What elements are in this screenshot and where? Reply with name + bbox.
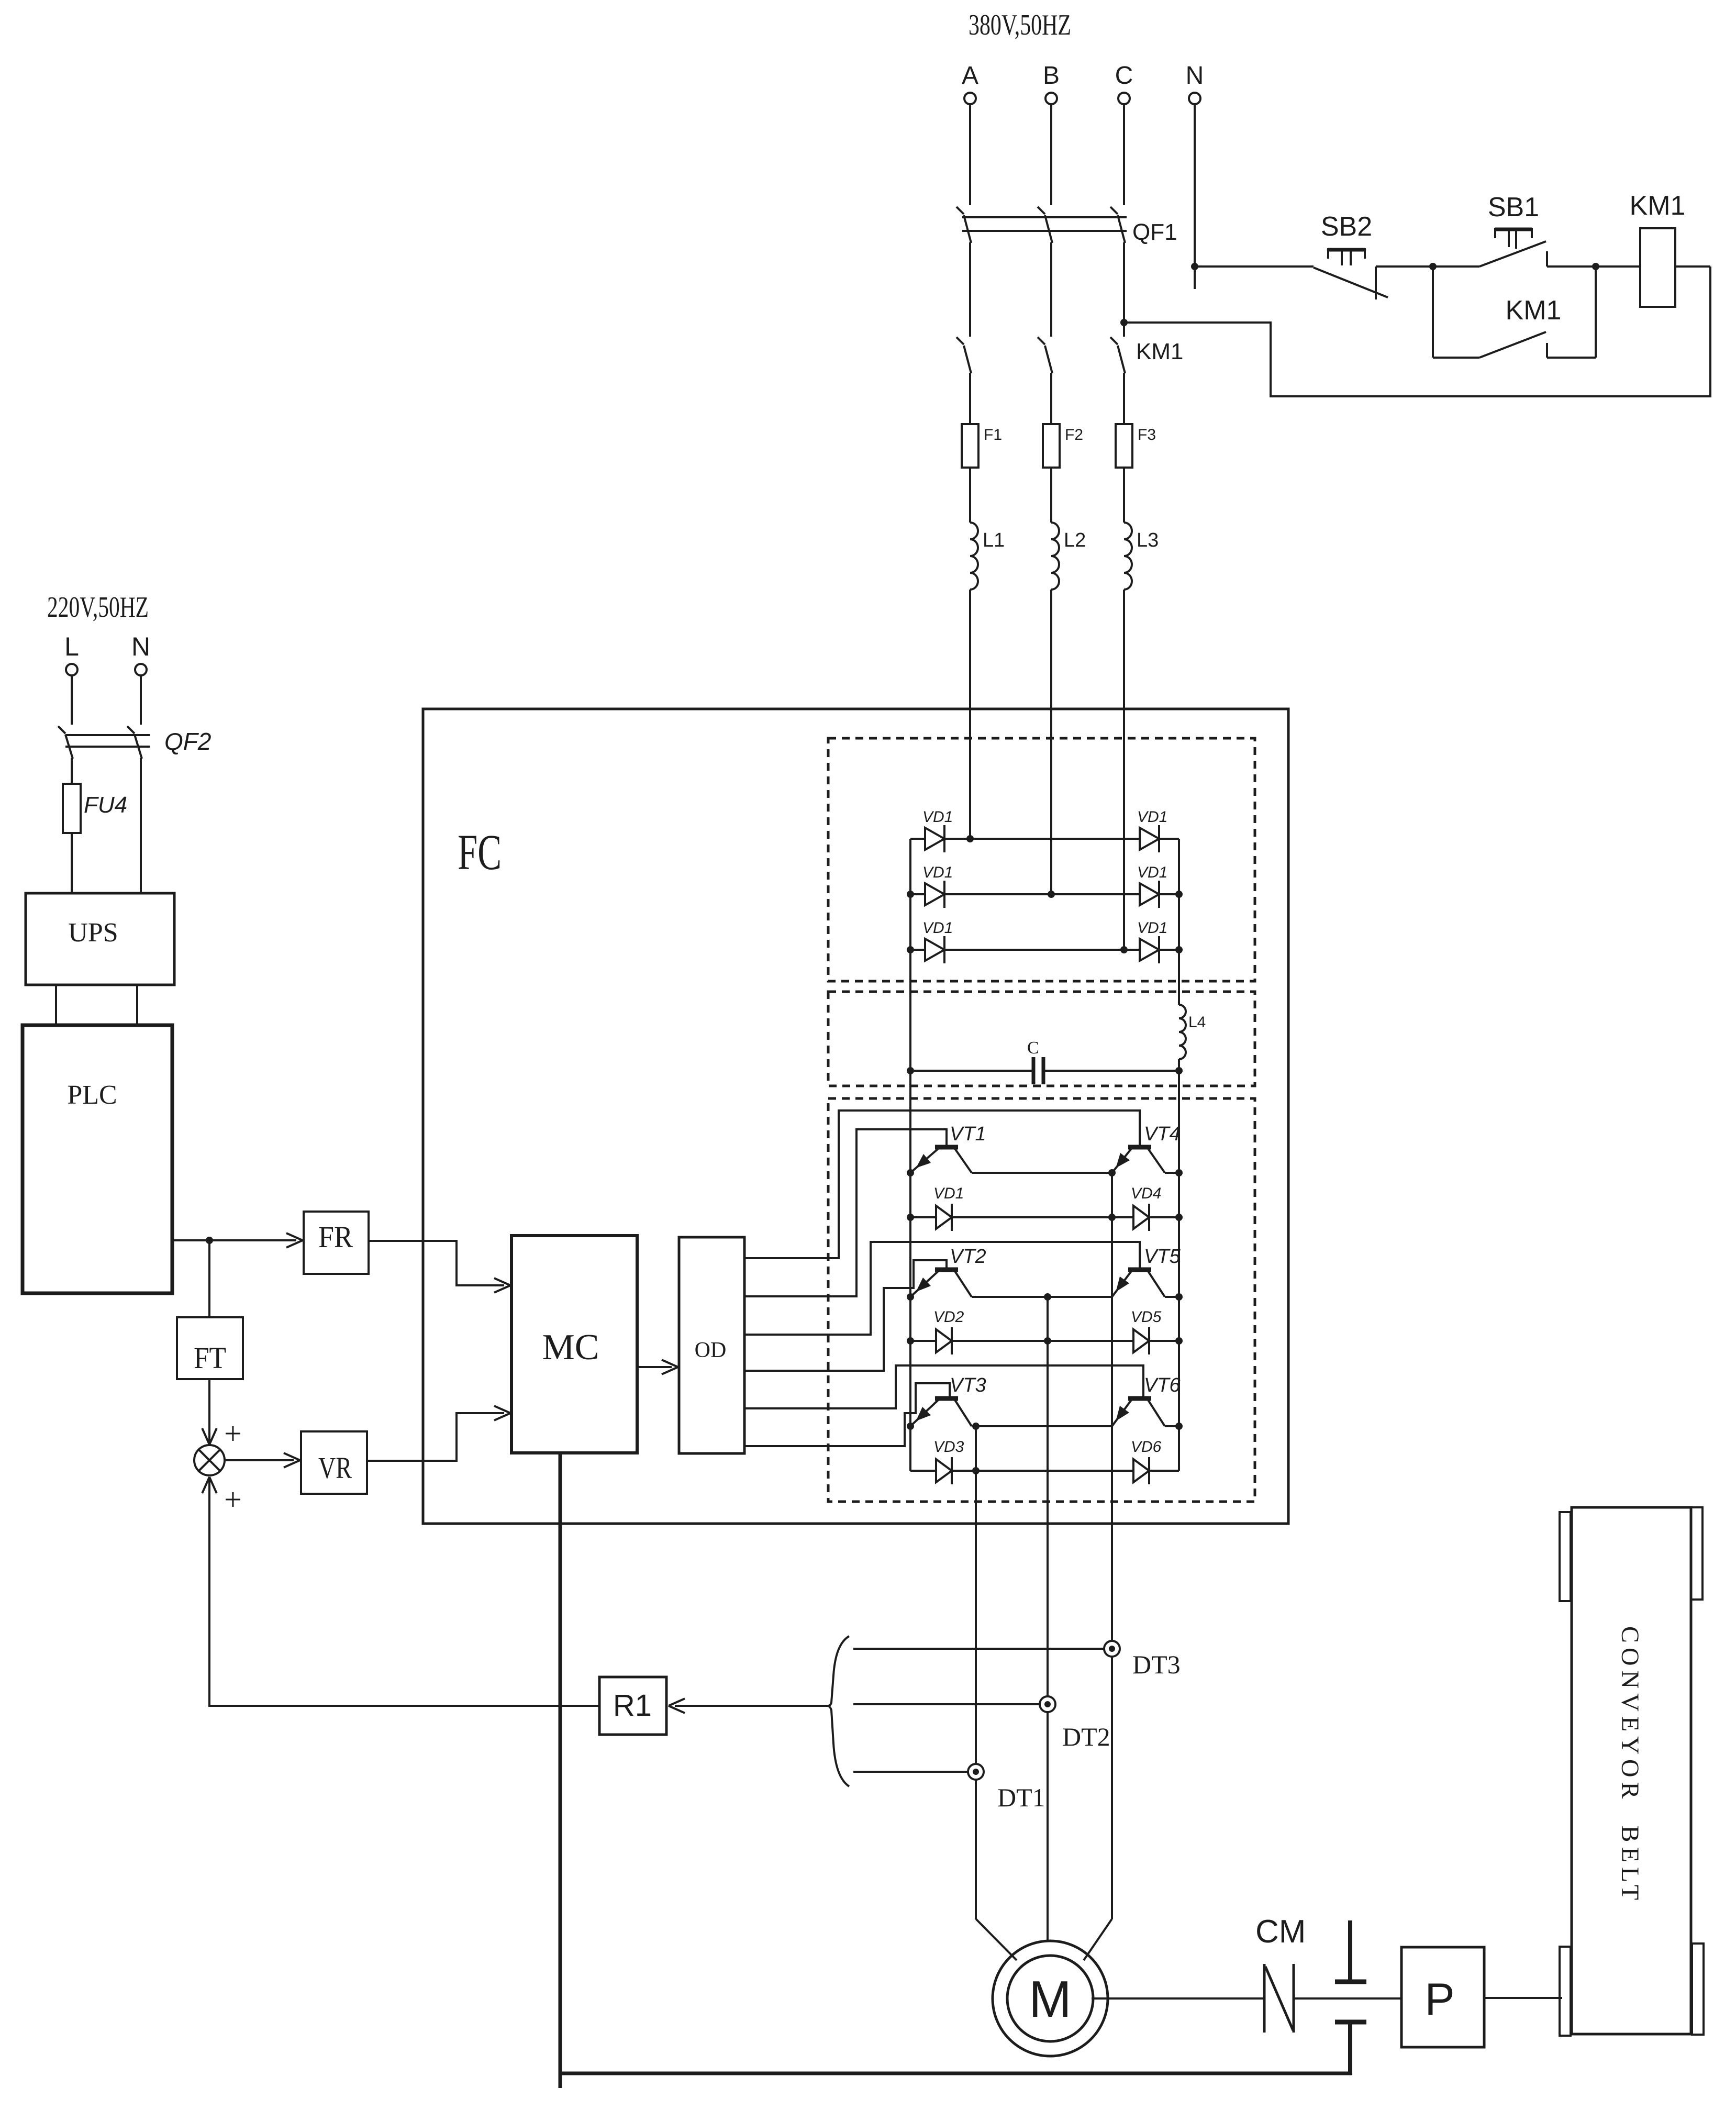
node N control tap [1191,263,1198,270]
svg-text:VD6: VD6 [1131,1438,1162,1456]
svg-text:MC: MC [542,1327,599,1368]
svg-text:QF2: QF2 [164,728,211,755]
svg-text:L3: L3 [1137,529,1159,551]
wire row3 mid [972,1425,976,1427]
conveyor belt body [1572,1507,1691,2034]
wire DT3 to brace [853,1648,1104,1650]
filter dashed box [828,992,1255,1086]
node C rectifier [1120,946,1128,953]
svg-text:L1: L1 [983,529,1005,551]
contactor main contacts KM1 [956,337,964,345]
current sensor DT3 [1104,1641,1120,1657]
node C control tap [1120,319,1128,326]
svg-text:UPS: UPS [68,918,118,948]
svg-text:B: B [1043,62,1060,90]
diode VD4 [1133,1206,1149,1229]
svg-text:FU4: FU4 [84,792,127,818]
wire motor shaft [1092,1997,1264,2000]
bus positive right [1178,839,1180,1005]
svg-text:DT2: DT2 [1062,1722,1110,1751]
wire phase U output [975,1426,977,1919]
conveyor roller top-left [1560,1512,1571,1601]
diode VD1 inverter [910,1216,936,1218]
svg-text:VD2: VD2 [933,1308,964,1326]
svg-text:FC: FC [458,824,502,880]
svg-text:N: N [131,632,150,661]
node row2 [907,1293,914,1301]
wire MC to OD [637,1366,672,1368]
bottom control bus [560,2072,1352,2075]
svg-text:C: C [1027,1038,1039,1058]
wire gate VT2 [744,1260,947,1371]
fuse F1 [969,424,971,468]
svg-text:CM: CM [1255,1914,1306,1950]
wire phase W to motor [1084,1919,1112,1960]
wire C KM1 to F3 [1123,373,1125,424]
svg-text:VD1: VD1 [922,864,953,881]
brace sensor bundle [828,1636,849,1786]
circuit breaker QF2 [58,726,65,734]
svg-text:OD: OD [695,1338,727,1362]
transistor VT6 [1128,1396,1151,1401]
diode VD1 row2 left [910,893,925,895]
wire neutral N drop [1194,104,1196,289]
svg-text:380V,50HZ: 380V,50HZ [969,9,1071,41]
fuse FU4 [63,784,81,833]
node B rectifier [1048,891,1055,898]
transistor VT2 [935,1268,958,1272]
svg-text:VD1: VD1 [922,919,953,937]
fuse F3 [1123,424,1125,468]
wire coil KM1 return [1675,265,1710,268]
brake plates [1348,1920,1352,1980]
block FR [304,1212,369,1274]
diode VD5 [1133,1329,1149,1352]
wire A KM1 to F1 [969,373,971,424]
wire L drop [71,675,73,725]
wire brake to bus [1348,2024,1352,2074]
wire N to SB2 [1195,265,1314,268]
svg-text:VT4: VT4 [1144,1123,1181,1145]
diode VD1 row2 right [1140,883,1159,905]
wire L2 into FC [1050,590,1052,894]
node row1 [907,1169,914,1176]
node cap right [1175,1067,1183,1074]
block UPS [26,893,174,985]
wire gate VT6 [744,1365,1143,1408]
diode VD1 row3 right [1140,939,1159,961]
wire B QF1 to KM1 [1050,242,1052,337]
diode VD1 row3 left [910,949,925,951]
diode VD1 row1 left [910,838,925,840]
wire phase A drop [969,104,971,205]
svg-text:DT3: DT3 [1132,1650,1181,1679]
wire C QF1 to KM1 [1123,242,1125,337]
node bus dots rectifier [907,891,914,898]
wire P to conveyor [1484,1997,1562,1999]
wire SB2 to node A1 [1376,265,1433,268]
svg-text:VD1: VD1 [1137,864,1167,881]
wire summer to VR [225,1459,294,1461]
circuit breaker QF1 [956,207,964,214]
svg-text:CONVEYOR BELT: CONVEYOR BELT [1616,1626,1644,1905]
wire DT2 to brace [853,1703,1040,1705]
svg-text:220V,50HZ: 220V,50HZ [47,591,149,624]
contactor auxiliary contact KM1 [1432,266,1434,358]
wire L1 into FC [969,590,971,839]
current sensor DT1 [968,1764,984,1780]
node A rectifier [966,835,974,842]
conveyor roller bottom-right [1692,1944,1704,2035]
wire FU4 to UPS [71,833,73,893]
svg-text:C: C [1115,62,1133,90]
wire SB1 to node B1 [1547,265,1596,268]
svg-text:F1: F1 [984,426,1002,443]
block FT [177,1317,243,1379]
conveyor roller top-right [1691,1507,1702,1600]
svg-text:VD3: VD3 [933,1438,964,1456]
node row3 [907,1423,914,1430]
wire UPS to PLC left [55,985,57,1025]
wire UPS to PLC right [136,985,138,1025]
diode VD3 [910,1470,936,1472]
wire feedback R1 to summer [209,1478,599,1706]
wire L3 into FC [1123,590,1125,950]
svg-text:L2: L2 [1064,529,1086,551]
wire PLC to FR [172,1239,296,1241]
block PLC [23,1025,172,1293]
svg-text:VD1: VD1 [1137,919,1167,937]
wire N2 to UPS [140,758,142,893]
svg-text:VT2: VT2 [950,1246,986,1268]
svg-text:A: A [962,62,978,90]
diode VD2 [910,1340,936,1342]
capacitor C [910,1070,1033,1072]
wire F3 to L3 [1123,468,1125,523]
inductor L1 [970,523,978,590]
fuse F2 [1050,424,1052,468]
conveyor roller bottom-left [1560,1947,1571,2036]
svg-text:DT1: DT1 [997,1783,1045,1812]
svg-text:VT5: VT5 [1144,1246,1181,1268]
diode VD1 row1 right [1140,828,1159,850]
transistor VT4 [1128,1145,1151,1150]
block VR [301,1431,367,1494]
node A1 [1429,263,1437,270]
inductor L2 [1051,523,1059,590]
transistor VT3 [935,1396,958,1401]
wire gate VT5 [744,1242,1140,1335]
current sensor DT2 [1040,1696,1055,1712]
wire brace to R1 [675,1705,828,1707]
wire N2 drop [140,675,142,725]
svg-text:M: M [1029,1970,1072,2028]
wire phase W output [1111,1173,1113,1919]
wire tap down to FT [208,1240,210,1317]
wire row2 mid [972,1296,1048,1298]
block R1 [599,1677,666,1735]
svg-text:N: N [1186,62,1204,90]
wire B KM1 to F2 [1050,373,1052,424]
wire L to FU4 [71,758,73,784]
wire gate VT3 [744,1383,950,1446]
node B1 [1592,263,1599,270]
diode VD6 [1133,1459,1149,1482]
svg-text:SB2: SB2 [1321,212,1372,242]
node VD3 row [972,1467,980,1474]
svg-text:VD1: VD1 [933,1185,964,1202]
wire phase C drop [1123,104,1125,205]
wire phase V output [1047,1297,1049,1956]
node VD2 row [907,1337,914,1345]
wire F1 to L1 [969,468,971,523]
wire shaft CM to brake [1294,1997,1401,2000]
summing junction [194,1445,225,1475]
svg-text:L: L [64,632,79,661]
inductor L4 [1179,1005,1186,1059]
svg-text:L4: L4 [1188,1014,1206,1031]
transistor VT5 [1128,1268,1151,1272]
svg-text:VD1: VD1 [922,808,953,826]
svg-text:VT1: VT1 [950,1123,986,1145]
frequency converter FC enclosure [423,709,1288,1524]
svg-text:KM1: KM1 [1136,339,1183,364]
svg-text:+: + [224,1416,242,1451]
wire A QF1 to KM1 [969,242,971,337]
wire gate VT4 [744,1110,1140,1258]
svg-text:VT3: VT3 [950,1374,986,1396]
svg-text:KM1: KM1 [1506,295,1562,326]
svg-text:R1: R1 [613,1689,652,1723]
wire MC output down [559,1453,562,2074]
node cap left [907,1067,914,1074]
inductor L3 [1124,523,1132,590]
transistor VT1 [935,1145,958,1150]
svg-text:+: + [224,1482,242,1517]
svg-text:FT: FT [194,1341,226,1375]
node VD1 row [907,1214,914,1221]
svg-text:VD4: VD4 [1131,1185,1161,1202]
wire phase B drop [1050,104,1052,205]
node FT tap [206,1237,213,1244]
wire gate VT1 [744,1129,947,1296]
wire VR to MC [367,1413,504,1461]
svg-text:KM1: KM1 [1630,191,1686,221]
svg-text:QF1: QF1 [1132,219,1177,245]
wire FT to summer [208,1379,210,1443]
rectifier dashed box [828,738,1255,981]
wire FR to MC [369,1241,504,1285]
svg-text:VR: VR [318,1451,352,1485]
block OD [679,1237,744,1453]
svg-text:VT6: VT6 [1144,1374,1181,1396]
block P sensor [1401,1947,1484,2047]
svg-text:SB1: SB1 [1488,192,1539,223]
svg-text:VD5: VD5 [1131,1308,1162,1326]
svg-text:VD1: VD1 [1137,808,1167,826]
svg-text:P: P [1425,1974,1454,2025]
block MC [511,1236,637,1453]
svg-text:F2: F2 [1065,426,1083,443]
wire node A1 to SB1 [1433,265,1479,268]
svg-text:PLC: PLC [67,1080,117,1110]
svg-text:FR: FR [318,1220,353,1254]
wire F2 to L2 [1050,468,1052,523]
motor M [993,1941,1108,2056]
wire DT1 to brace [853,1771,968,1773]
wire row1 mid [972,1172,1112,1174]
wire phase U to motor [976,1919,1017,1960]
inverter dashed box [828,1098,1255,1502]
bus negative left [909,839,911,1471]
svg-text:F3: F3 [1138,426,1156,443]
